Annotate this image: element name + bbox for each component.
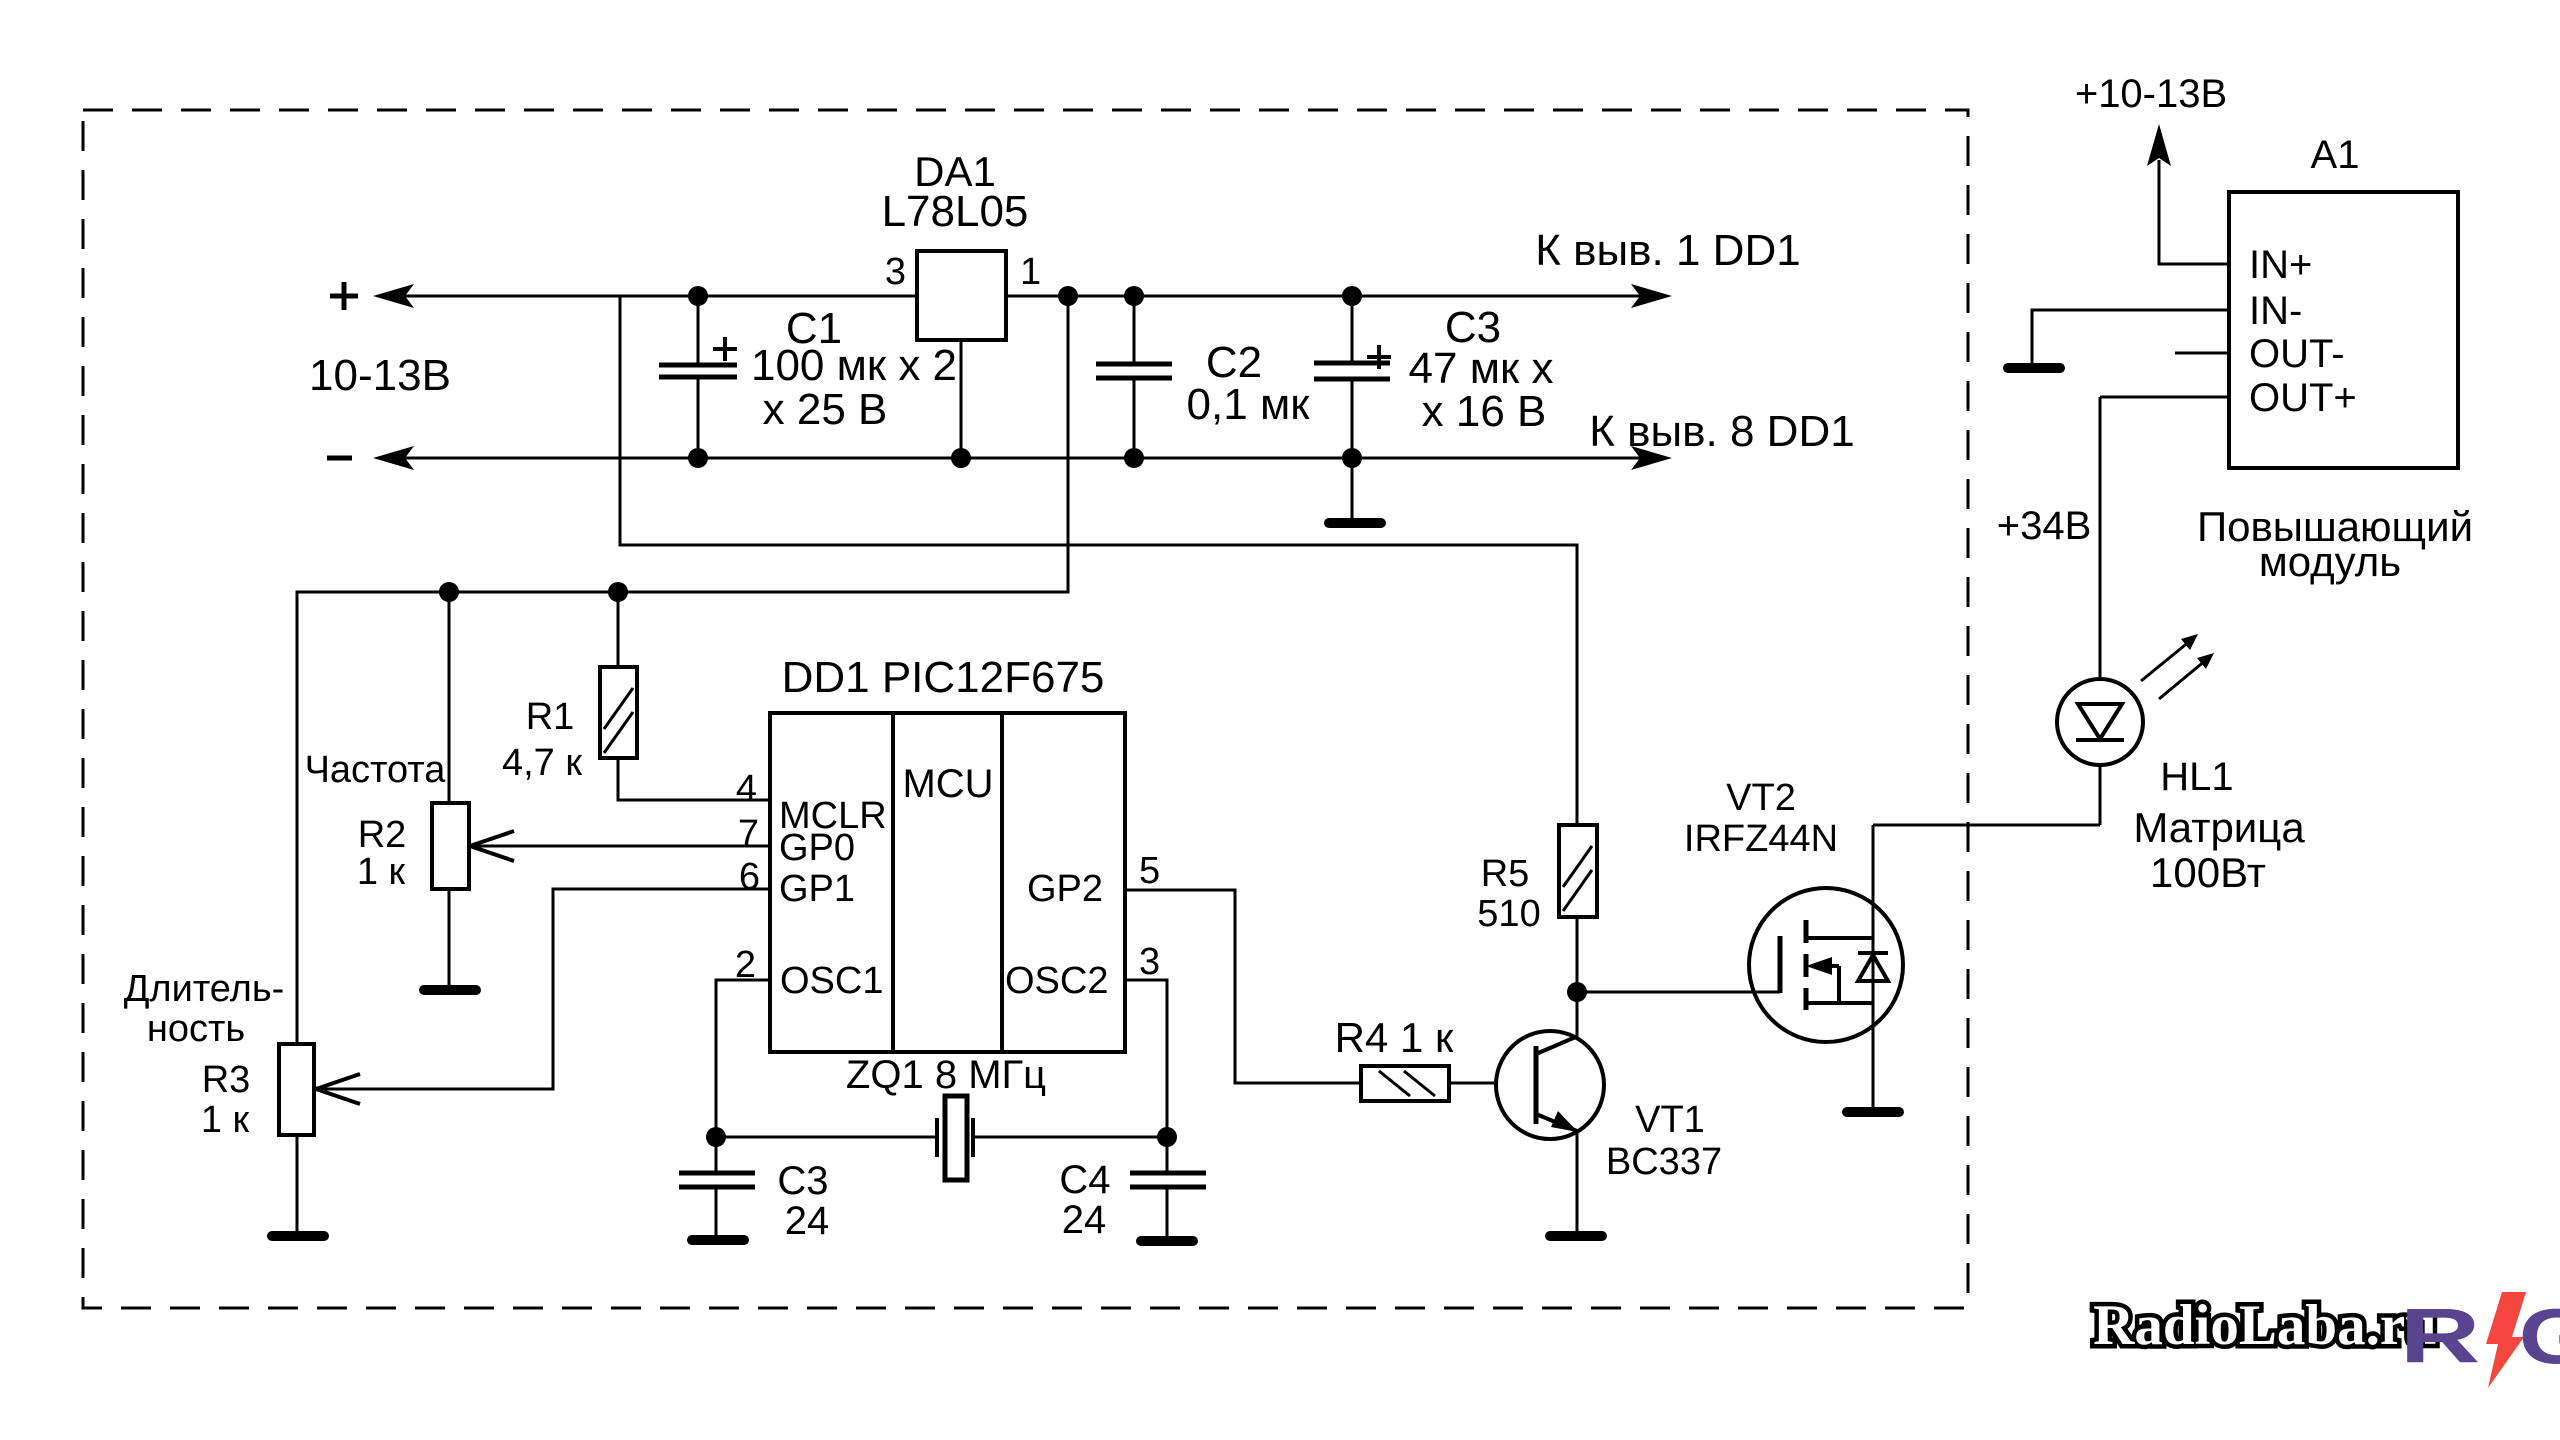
svg-text:C3: C3: [777, 1159, 828, 1203]
node +10-13В arrow: [2147, 124, 2171, 166]
dashed enclosure border: [83, 110, 1968, 1308]
svg-text:MCU: MCU: [902, 762, 993, 806]
wire IN- to ground: [2032, 310, 2229, 363]
capacitor C4: [1130, 1137, 1206, 1236]
ground under C4: [1136, 1236, 1198, 1246]
wire R5 to gate node: [1576, 917, 1579, 992]
svg-text:ZQ1 8 МГц: ZQ1 8 МГц: [846, 1053, 1046, 1097]
svg-text:К выв. 8 DD1: К выв. 8 DD1: [1589, 407, 1854, 456]
node dot R2 rail: [439, 582, 459, 602]
ground under VT2: [1842, 1107, 1904, 1117]
capacitor C3 electrolytic: [1314, 296, 1391, 518]
svg-text:R1: R1: [526, 696, 575, 738]
capacitor C2: [1096, 296, 1172, 458]
svg-text:HL1: HL1: [2160, 755, 2233, 799]
svg-text:OUT-: OUT-: [2249, 332, 2345, 376]
svg-text:510: 510: [1477, 893, 1540, 935]
node dot C3 top: [1342, 286, 1362, 306]
svg-text:R4 1 к: R4 1 к: [1335, 1014, 1454, 1061]
ground under R2: [419, 985, 481, 995]
node dot C3 bottom: [1342, 448, 1362, 468]
node R2 wiper arrow: [470, 831, 514, 861]
node dot C1 bottom: [688, 448, 708, 468]
resistor R1: [600, 592, 637, 758]
svg-text:К выв. 1 DD1: К выв. 1 DD1: [1535, 226, 1800, 275]
svg-text:+10-13В: +10-13В: [2075, 72, 2227, 116]
svg-text:Частота: Частота: [305, 749, 447, 791]
potentiometer R3: [279, 1044, 314, 1231]
svg-text:R3: R3: [202, 1059, 251, 1101]
svg-text:R5: R5: [1481, 853, 1530, 895]
svg-text:1: 1: [1020, 251, 1041, 293]
node dot C2 bottom: [1124, 448, 1144, 468]
ground at IN-: [2003, 363, 2065, 373]
svg-text:Длитель-: Длитель-: [124, 968, 285, 1010]
regulator DA1: [917, 251, 1006, 340]
wire + bus left: [405, 295, 917, 298]
svg-text:x 25 В: x 25 В: [763, 385, 888, 434]
svg-text:IN-: IN-: [2249, 289, 2302, 333]
wire IN+ supply: [2159, 160, 2229, 264]
svg-text:OSC1: OSC1: [780, 960, 883, 1002]
svg-text:x 16 В: x 16 В: [1422, 387, 1547, 436]
wire minus bus: [405, 457, 1640, 460]
wire raw 12V branch to R5: [620, 296, 1577, 825]
transistor VT1: [1496, 992, 1604, 1231]
wire R4 to VT1 base: [1449, 1082, 1496, 1085]
potentiometer R2: [432, 592, 469, 985]
svg-text:OSC2: OSC2: [1005, 960, 1108, 1002]
logo lightning: [2486, 1292, 2526, 1388]
node HL1 light arrow 1: [2141, 634, 2198, 681]
wire drain to LED: [1873, 824, 2100, 827]
ground under C3: [1324, 518, 1386, 528]
node dot DA1 out: [1058, 286, 1078, 306]
node dot DA1 gnd: [951, 448, 971, 468]
wire GP2 to R4: [1125, 890, 1361, 1083]
svg-text:24: 24: [1062, 1198, 1107, 1242]
ground under C3 load: [687, 1235, 749, 1245]
svg-text:VT1: VT1: [1635, 1099, 1705, 1141]
node dot OSC1 xtal: [706, 1127, 726, 1147]
wire DA1 ground pin: [960, 340, 963, 458]
node input minus arrow: [373, 446, 414, 470]
svg-text:4: 4: [736, 768, 757, 810]
svg-text:GP0: GP0: [779, 827, 855, 869]
svg-text:1 к: 1 к: [357, 851, 406, 893]
svg-text:ность: ность: [147, 1008, 245, 1050]
svg-text:VT2: VT2: [1726, 777, 1796, 819]
svg-text:3: 3: [885, 251, 906, 293]
svg-text:3: 3: [1139, 941, 1160, 983]
wire OSC1 branch: [716, 980, 770, 1137]
svg-text:IRFZ44N: IRFZ44N: [1684, 818, 1838, 860]
led HL1: [2057, 397, 2143, 825]
svg-text:+34В: +34В: [1997, 504, 2092, 548]
svg-text:R2: R2: [358, 814, 407, 856]
svg-text:GP2: GP2: [1027, 868, 1103, 910]
svg-text:IN+: IN+: [2249, 243, 2312, 287]
ground under R3: [267, 1231, 329, 1241]
svg-text:10-13В: 10-13В: [309, 351, 451, 400]
node dot C2 top: [1124, 286, 1144, 306]
node dot R1 rail: [608, 582, 628, 602]
wire OUT+ to LED: [2100, 396, 2229, 399]
wire +5V distribution rail: [297, 296, 1068, 1044]
resistor R5: [1559, 825, 1597, 917]
wire OUT- stub: [2175, 352, 2229, 355]
wire OSC2 branch: [1125, 980, 1167, 1137]
node minus bus right arrow to DD1 pin 8: [1631, 446, 1672, 470]
node plus sign: [330, 282, 358, 310]
node dot gate: [1567, 982, 1587, 1002]
node HL1 light arrow 2: [2159, 653, 2214, 699]
module A1 box: [2229, 192, 2458, 468]
svg-text:47 мк x: 47 мк x: [1409, 344, 1554, 393]
node dot C1 top: [688, 286, 708, 306]
wire GP0 to R2 wiper: [471, 845, 770, 848]
svg-text:DD1 PIC12F675: DD1 PIC12F675: [782, 653, 1105, 702]
svg-text:OUT+: OUT+: [2249, 376, 2357, 420]
svg-text:R: R: [2400, 1293, 2481, 1379]
node +5 bus right arrow to DD1 pin 1: [1631, 284, 1672, 308]
svg-text:5: 5: [1139, 850, 1160, 892]
svg-text:RadioLaba.ru: RadioLaba.ru: [2093, 1294, 2437, 1357]
svg-text:0,1 мк: 0,1 мк: [1187, 380, 1311, 429]
svg-text:24: 24: [785, 1199, 830, 1243]
svg-text:модуль: модуль: [2259, 538, 2401, 585]
crystal ZQ1: [716, 1096, 1167, 1180]
svg-text:G: G: [2519, 1292, 2560, 1379]
svg-text:A1: A1: [2311, 133, 2360, 177]
svg-text:6: 6: [739, 856, 760, 898]
svg-text:Матрица: Матрица: [2133, 804, 2305, 851]
ground under VT1: [1545, 1231, 1607, 1241]
svg-text:100Вт: 100Вт: [2150, 849, 2266, 896]
svg-text:BC337: BC337: [1606, 1141, 1722, 1183]
node dot OSC2 xtal: [1157, 1127, 1177, 1147]
wire GP1 to R3 wiper: [317, 889, 770, 1089]
node minus sign: [327, 456, 352, 461]
wire gate node to VT2 gate: [1577, 991, 1780, 994]
node input plus arrow: [373, 284, 414, 308]
svg-text:1 к: 1 к: [201, 1099, 250, 1141]
wire R1 to MCLR: [618, 758, 770, 800]
capacitor C3 load: [679, 1137, 755, 1235]
node R3 wiper arrow: [316, 1074, 360, 1104]
svg-text:C4: C4: [1059, 1158, 1110, 1202]
svg-text:7: 7: [738, 813, 759, 855]
wire +5V bus from DA1 output: [1006, 295, 1640, 298]
mosfet VT2: [1749, 825, 1903, 1107]
svg-text:GP1: GP1: [779, 868, 855, 910]
capacitor C1: [659, 296, 737, 458]
mcu DD1 box: [770, 713, 1125, 1052]
svg-text:4,7 к: 4,7 к: [502, 742, 582, 784]
resistor R4: [1361, 1066, 1449, 1101]
svg-text:L78L05: L78L05: [882, 187, 1029, 236]
svg-text:100 мк x 2: 100 мк x 2: [751, 341, 957, 390]
